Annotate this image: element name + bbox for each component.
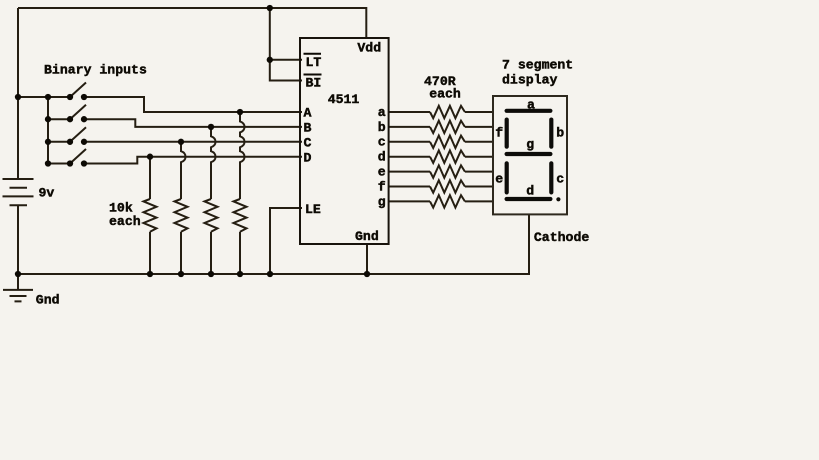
svg-text:B: B (304, 121, 312, 136)
svg-text:c: c (378, 135, 386, 150)
svg-text:f: f (378, 179, 386, 194)
svg-text:d: d (526, 184, 534, 199)
svg-text:display: display (502, 73, 557, 88)
svg-text:Cathode: Cathode (534, 230, 589, 245)
svg-text:BI: BI (306, 76, 322, 91)
svg-text:g: g (526, 137, 534, 152)
svg-text:g: g (378, 194, 386, 209)
svg-text:7 segment: 7 segment (502, 58, 573, 73)
svg-text:A: A (304, 106, 312, 121)
svg-text:each: each (109, 214, 141, 229)
svg-text:e: e (495, 172, 503, 187)
svg-text:b: b (378, 120, 386, 135)
svg-text:9v: 9v (39, 186, 55, 201)
svg-text:C: C (304, 136, 312, 151)
svg-text:c: c (556, 172, 564, 187)
svg-text:4511: 4511 (328, 92, 360, 107)
svg-text:each: each (429, 86, 461, 101)
svg-text:Vdd: Vdd (357, 40, 381, 55)
svg-text:Gnd: Gnd (355, 229, 379, 244)
svg-text:d: d (378, 150, 386, 165)
svg-text:f: f (495, 125, 503, 140)
svg-text:b: b (556, 125, 564, 140)
svg-text:LT: LT (306, 55, 322, 70)
svg-text:e: e (378, 165, 386, 180)
svg-text:a: a (527, 97, 535, 112)
svg-text:Binary inputs: Binary inputs (44, 62, 147, 77)
svg-text:LE: LE (305, 202, 321, 217)
svg-text:D: D (304, 150, 312, 165)
svg-text:Gnd: Gnd (36, 293, 60, 308)
svg-text:a: a (378, 105, 386, 120)
